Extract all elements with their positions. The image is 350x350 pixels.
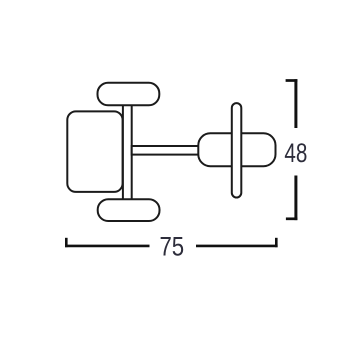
svg-text:48: 48 [284, 138, 307, 168]
svg-text:75: 75 [159, 231, 184, 261]
